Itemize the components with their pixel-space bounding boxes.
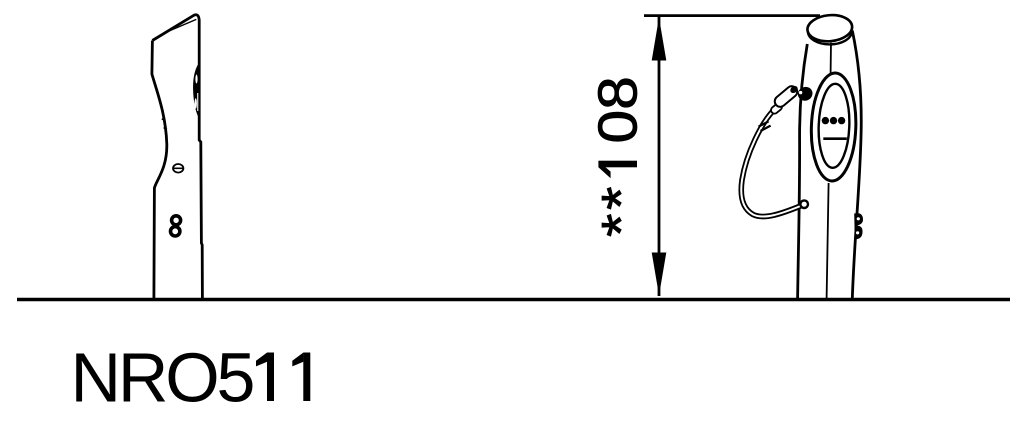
left post: lens slit 2: [195, 98, 197, 108]
dimension text: digit 1 (rotated, drawn): [598, 161, 637, 179]
dimension extension line: [644, 14, 820, 17]
right pole: three dots: [822, 117, 846, 124]
left post: curve tick 2: [164, 128, 167, 130]
svg-text:**: **: [591, 183, 652, 237]
ground line: [17, 298, 1010, 301]
handle body: [773, 84, 800, 109]
svg-text:NRO5: NRO5: [71, 339, 253, 417]
dimension arrow top: [652, 18, 667, 61]
dimension arrow bottom: [652, 253, 667, 296]
right pole: inner oval: [817, 83, 851, 168]
svg-text:08: 08: [588, 76, 649, 143]
handle link: [770, 102, 784, 115]
left post: top inner edge: [171, 19, 197, 30]
handle clip blob: [796, 85, 815, 104]
right edge clip bumps: [854, 213, 863, 239]
left post: slotted hole: [173, 164, 183, 173]
right pole: top rim lower ellipse: [808, 19, 852, 44]
right pole: seam above panel: [830, 43, 832, 73]
dimension line: [658, 17, 661, 296]
left post: curve tick 1: [162, 119, 165, 121]
right pole: top ellipse: [806, 13, 853, 43]
handle nozzle head: [789, 84, 799, 94]
label digit 1: [256, 353, 274, 402]
right pole: right edge: [852, 31, 861, 299]
right pole: slot line: [823, 137, 847, 140]
right pole: left edge: [798, 44, 808, 299]
left post: outline (side view): [152, 41, 167, 299]
left post: top slant: [152, 15, 202, 299]
left post: lens slit 1: [195, 75, 197, 84]
hose attachment ball: [800, 200, 808, 208]
label digit 1: [292, 353, 310, 402]
right pole: hose: [741, 112, 800, 217]
left post: panel side lens: [193, 64, 199, 118]
right pole: outer oval panel: [810, 72, 858, 181]
left post: screw pair: [171, 216, 181, 236]
hose coupling: [759, 121, 769, 126]
right pole: seam below panel: [827, 183, 829, 299]
